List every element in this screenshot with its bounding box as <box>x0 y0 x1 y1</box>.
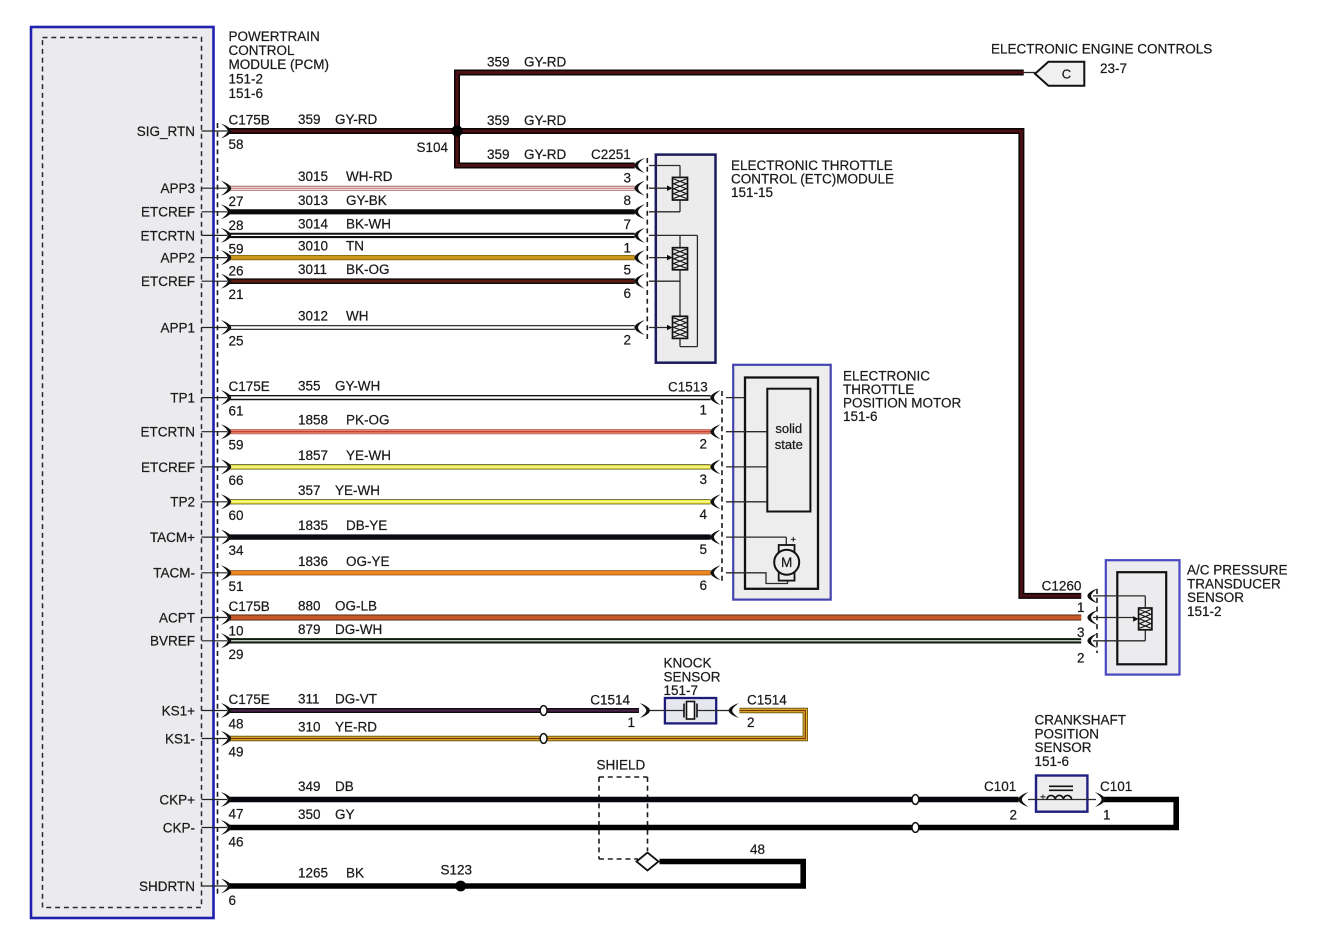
terminal arrow pin 27 <box>221 181 231 196</box>
svg-text:GY-BK: GY-BK <box>346 193 387 208</box>
svg-text:POWERTRAIN: POWERTRAIN <box>229 29 320 44</box>
device terminal arrow pin 1 <box>634 228 644 243</box>
svg-text:357: 357 <box>298 483 321 498</box>
device terminal arrow pin 1 <box>710 390 720 405</box>
svg-text:DB: DB <box>335 779 354 794</box>
terminal arrow pin 61 <box>221 390 231 405</box>
svg-text:ETCRTN: ETCRTN <box>140 425 195 440</box>
svg-text:APP2: APP2 <box>160 251 195 266</box>
svg-text:YE-WH: YE-WH <box>335 483 380 498</box>
svg-text:SENSOR: SENSOR <box>664 669 721 684</box>
motor inner box <box>745 378 818 589</box>
svg-text:1: 1 <box>699 403 707 418</box>
ETC potentiometer 1 (APP3) <box>673 177 688 200</box>
device terminal arrow pin 7 <box>634 204 644 219</box>
svg-text:29: 29 <box>229 647 244 662</box>
wire 3015 WH-RD APP3 <box>229 186 635 191</box>
svg-text:A/C PRESSURE: A/C PRESSURE <box>1187 563 1288 578</box>
svg-text:ACPT: ACPT <box>159 610 195 625</box>
svg-text:5: 5 <box>623 263 631 278</box>
svg-text:58: 58 <box>229 137 244 152</box>
C1513 connector dashed line <box>721 391 723 581</box>
terminal arrow pin 46 <box>221 820 231 835</box>
svg-text:151-7: 151-7 <box>664 683 699 698</box>
device terminal arrow pin 3 <box>1087 610 1097 625</box>
svg-text:BVREF: BVREF <box>150 634 195 649</box>
svg-text:2: 2 <box>699 437 707 452</box>
wire 3010 TN APP2 <box>229 255 635 260</box>
terminal arrow pin 6 <box>221 879 231 894</box>
svg-text:APP1: APP1 <box>160 320 195 335</box>
PCM inner dashed outline <box>43 38 202 908</box>
svg-text:3011: 3011 <box>298 262 327 277</box>
svg-text:359: 359 <box>298 112 321 127</box>
pot1 top lead to pin 3 <box>649 165 680 167</box>
terminal arrow pin 47 <box>221 792 231 807</box>
svg-text:S104: S104 <box>416 140 448 155</box>
svg-text:BK-WH: BK-WH <box>346 216 391 231</box>
svg-text:359: 359 <box>487 113 510 128</box>
pot1 wiper lead pin 8 <box>649 187 668 189</box>
svg-text:34: 34 <box>229 543 245 558</box>
twisted pair marker CKP+ <box>912 795 919 805</box>
svg-text:TN: TN <box>346 239 364 254</box>
pot2 bottom to pot3 top tie with pin 6 <box>679 270 681 317</box>
svg-text:WH: WH <box>346 309 369 324</box>
splice S123 <box>455 881 466 892</box>
terminal arrow pin 59 <box>221 228 231 243</box>
shield dashed box <box>599 776 648 778</box>
C1260 connector dashed line <box>1096 589 1098 653</box>
svg-text:26: 26 <box>229 264 244 279</box>
svg-text:CRANKSHAFT: CRANKSHAFT <box>1035 713 1127 728</box>
svg-text:OG-YE: OG-YE <box>346 554 390 569</box>
crankshaft position sensor box <box>1036 776 1087 812</box>
device terminal arrow pin 3 <box>634 158 644 173</box>
svg-text:M: M <box>781 555 792 570</box>
C101 pin 2 terminal arrow <box>1018 792 1028 807</box>
svg-text:4: 4 <box>699 507 707 522</box>
svg-text:2: 2 <box>1077 650 1085 665</box>
svg-text:ETCREF: ETCREF <box>141 205 195 220</box>
svg-text:ETCREF: ETCREF <box>141 460 195 475</box>
terminal arrow pin 28 <box>221 204 231 219</box>
svg-text:GY-RD: GY-RD <box>524 113 567 128</box>
svg-text:TP1: TP1 <box>170 391 195 406</box>
C101 pin 1 terminal arrow <box>1095 792 1105 807</box>
terminal arrow pin 26 <box>221 250 231 265</box>
svg-text:1835: 1835 <box>298 518 328 533</box>
terminal arrow pin 29 <box>221 633 231 648</box>
PCM pin 25 APP1 lead line <box>202 327 228 329</box>
svg-text:C1514: C1514 <box>747 693 787 708</box>
pot1 bottom lead to pin 7 <box>679 200 681 212</box>
wire 311 DG-VT KS1+ <box>229 708 639 713</box>
PCM pin 10 ACPT lead line <box>202 617 228 619</box>
svg-text:350: 350 <box>298 807 321 822</box>
device terminal arrow pin 2 <box>634 320 644 335</box>
svg-text:C175B: C175B <box>229 599 270 614</box>
svg-text:POSITION: POSITION <box>1035 726 1100 741</box>
PCM pin 48 KS1+ lead line <box>202 710 228 712</box>
pot2 wiper lead pin 5 <box>649 257 668 259</box>
terminal arrow pin 48 <box>221 703 231 718</box>
svg-text:C175E: C175E <box>229 692 270 707</box>
svg-text:355: 355 <box>298 379 321 394</box>
svg-text:KS1+: KS1+ <box>162 703 196 718</box>
ETC module box ELECTRONIC THROTTLE CONTROL <box>656 155 716 363</box>
svg-text:49: 49 <box>229 745 244 760</box>
svg-text:C175B: C175B <box>229 113 270 128</box>
svg-text:PK-OG: PK-OG <box>346 413 390 428</box>
knock sensor box <box>665 698 716 723</box>
shield drain diamond <box>637 853 659 871</box>
svg-text:8: 8 <box>623 193 631 208</box>
PCM pin 60 TP2 lead line <box>202 501 228 503</box>
svg-text:GY-RD: GY-RD <box>335 112 378 127</box>
svg-text:TACM-: TACM- <box>153 566 195 581</box>
svg-text:TRANSDUCER: TRANSDUCER <box>1187 576 1281 591</box>
throttle motor box ELECTRONIC THROTTLE POSITION MOTOR <box>733 365 831 600</box>
svg-text:C175E: C175E <box>229 379 270 394</box>
svg-text:27: 27 <box>229 194 244 209</box>
svg-text:6: 6 <box>699 578 707 593</box>
wire 349 DB CKP+ <box>229 797 1019 803</box>
device terminal arrow pin 8 <box>634 181 644 196</box>
A/C pin2 lead <box>1093 640 1145 642</box>
svg-text:TP2: TP2 <box>170 495 195 510</box>
terminal arrow pin 21 <box>221 274 231 289</box>
svg-text:2: 2 <box>747 715 755 730</box>
motor M symbol <box>779 545 795 553</box>
svg-text:7: 7 <box>623 217 631 232</box>
svg-text:25: 25 <box>229 334 244 349</box>
svg-text:3013: 3013 <box>298 193 328 208</box>
svg-text:1836: 1836 <box>298 554 328 569</box>
svg-text:3: 3 <box>1077 625 1085 640</box>
svg-text:CKP-: CKP- <box>163 820 195 835</box>
svg-text:151-2: 151-2 <box>229 72 264 87</box>
PCM pin 28 ETCREF lead line <box>202 211 228 213</box>
svg-text:3010: 3010 <box>298 239 328 254</box>
svg-text:WH-RD: WH-RD <box>346 169 393 184</box>
PCM pin 6 SHDRTN lead line <box>202 885 228 887</box>
PCM pin 27 APP3 lead line <box>202 187 228 189</box>
PCM pin 59 ETCRTN lead line <box>202 234 228 236</box>
svg-text:3014: 3014 <box>298 216 329 231</box>
PCM connector dashed line <box>217 123 219 894</box>
PCM pin 58 SIG_RTN lead line <box>202 130 228 132</box>
CKP coil symbol <box>1036 799 1087 801</box>
device terminal arrow pin 2 <box>1087 633 1097 648</box>
motor pin3 lead <box>726 466 767 468</box>
svg-text:66: 66 <box>229 473 244 488</box>
CKP sensor lead right <box>1087 799 1096 801</box>
terminal arrow pin 10 <box>221 610 231 625</box>
motor pin6 lead to motor - <box>726 573 788 584</box>
wire 3014 BK-WH ETCRTN <box>229 233 635 238</box>
svg-text:CONTROL: CONTROL <box>229 43 295 58</box>
device terminal arrow pin 4 <box>710 494 720 509</box>
twisted pair marker KS1+ <box>540 706 547 716</box>
PCM pin 47 CKP+ lead line <box>202 799 228 801</box>
device terminal arrow pin 5 <box>634 250 644 265</box>
svg-text:DG-WH: DG-WH <box>335 622 382 637</box>
svg-text:CKP+: CKP+ <box>159 792 195 807</box>
svg-text:C1260: C1260 <box>1042 579 1082 594</box>
device terminal arrow pin 5 <box>710 530 720 545</box>
svg-text:6: 6 <box>623 286 631 301</box>
svg-text:KNOCK: KNOCK <box>664 656 712 671</box>
svg-text:APP3: APP3 <box>160 181 195 196</box>
svg-text:ETCREF: ETCREF <box>141 274 195 289</box>
terminal arrow pin 34 <box>221 530 231 545</box>
svg-text:151-15: 151-15 <box>731 185 773 200</box>
A/C pressure sensor box <box>1106 560 1180 674</box>
A/C pot element <box>1139 608 1152 630</box>
terminal arrow pin 59 <box>221 424 231 439</box>
PCM pin 46 CKP- lead line <box>202 827 228 829</box>
knock sensor lead left <box>650 710 665 712</box>
PCM module box (POWERTRAIN CONTROL MODULE) <box>31 27 214 918</box>
wire 1858 PK-OG ETCRTN <box>229 429 711 434</box>
svg-text:151-2: 151-2 <box>1187 604 1222 619</box>
svg-text:solid: solid <box>775 421 802 436</box>
svg-text:1: 1 <box>623 240 631 255</box>
PCM pin 51 TACM- lead line <box>202 572 228 574</box>
svg-text:ELECTRONIC ENGINE CONTROLS: ELECTRONIC ENGINE CONTROLS <box>991 42 1212 57</box>
svg-text:349: 349 <box>298 779 321 794</box>
wire 357 YE-WH TP2 <box>229 499 711 504</box>
C2251 connector dashed line <box>646 158 648 341</box>
svg-text:SIG_RTN: SIG_RTN <box>137 124 195 139</box>
svg-text:GY-WH: GY-WH <box>335 379 380 394</box>
svg-text:61: 61 <box>229 404 244 419</box>
svg-text:C101: C101 <box>984 779 1016 794</box>
svg-text:3: 3 <box>699 472 707 487</box>
solid state box <box>767 389 810 512</box>
svg-text:359: 359 <box>487 55 510 70</box>
pot3 bottom lead <box>679 338 681 346</box>
A/C pin1 lead <box>1093 595 1145 597</box>
svg-text:C2251: C2251 <box>591 147 631 162</box>
svg-text:28: 28 <box>229 218 244 233</box>
terminal arrow pin 51 <box>221 565 231 580</box>
svg-text:ETCRTN: ETCRTN <box>140 228 195 243</box>
svg-text:SHIELD: SHIELD <box>597 758 646 773</box>
svg-text:3: 3 <box>623 171 631 186</box>
svg-text:SENSOR: SENSOR <box>1035 740 1092 755</box>
wire 1857 YE-WH ETCREF <box>229 464 711 469</box>
svg-text:151-6: 151-6 <box>843 409 878 424</box>
PCM pin 66 ETCREF lead line <box>202 466 228 468</box>
ETC potentiometer 3 (APP1) <box>673 316 688 338</box>
svg-text:1857: 1857 <box>298 448 328 463</box>
motor pin2 lead <box>726 431 767 433</box>
svg-text:2: 2 <box>1009 808 1017 823</box>
svg-text:151-6: 151-6 <box>1035 754 1070 769</box>
svg-text:48: 48 <box>750 842 765 857</box>
device terminal arrow pin 6 <box>634 274 644 289</box>
splice S104 <box>451 125 462 136</box>
svg-text:OG-LB: OG-LB <box>335 599 377 614</box>
svg-text:23-7: 23-7 <box>1100 61 1127 76</box>
svg-text:46: 46 <box>229 835 244 850</box>
svg-text:310: 310 <box>298 720 321 735</box>
svg-text:311: 311 <box>298 692 320 707</box>
PCM pin 26 APP2 lead line <box>202 257 228 259</box>
twisted pair marker CKP- <box>912 823 919 833</box>
PCM pin 59 ETCRTN lead line <box>202 431 228 433</box>
svg-text:3015: 3015 <box>298 169 328 184</box>
terminal arrow pin 66 <box>221 459 231 474</box>
svg-text:1: 1 <box>1077 600 1085 615</box>
svg-text:C1514: C1514 <box>590 693 630 708</box>
svg-text:C1513: C1513 <box>668 380 708 395</box>
svg-text:1: 1 <box>627 715 635 730</box>
PCM pin 29 BVREF lead line <box>202 640 228 642</box>
pot3 wiper lead pin 2 <box>649 327 668 329</box>
motor pin1 lead <box>726 397 745 399</box>
device terminal arrow pin 6 <box>710 565 720 580</box>
svg-text:C101: C101 <box>1100 779 1132 794</box>
svg-text:S123: S123 <box>441 863 473 878</box>
svg-text:59: 59 <box>229 438 244 453</box>
svg-text:1: 1 <box>1103 808 1111 823</box>
svg-text:2: 2 <box>623 333 631 348</box>
svg-text:SHDRTN: SHDRTN <box>139 879 195 894</box>
PCM pin 61 TP1 lead line <box>202 397 228 399</box>
svg-text:YE-WH: YE-WH <box>346 448 391 463</box>
svg-text:DB-YE: DB-YE <box>346 518 387 533</box>
svg-text:47: 47 <box>229 807 244 822</box>
wire 359 GY-RD SIG_RTN to S104 to A/C sensor <box>229 131 1081 596</box>
twisted pair marker KS1- <box>540 734 547 744</box>
motor pin4 lead <box>726 501 767 503</box>
electronic engine controls lead line <box>1024 72 1036 74</box>
terminal arrow pin 58 <box>221 124 231 139</box>
svg-text:GY-RD: GY-RD <box>524 55 567 70</box>
svg-text:1265: 1265 <box>298 866 328 881</box>
device terminal arrow pin 1 <box>1087 588 1097 603</box>
svg-text:GY-RD: GY-RD <box>524 147 567 162</box>
svg-text:MODULE (PCM): MODULE (PCM) <box>229 57 330 72</box>
svg-text:1858: 1858 <box>298 413 328 428</box>
wire 350 GY CKP- loop through C101 <box>229 800 1176 828</box>
svg-text:TACM+: TACM+ <box>150 530 195 545</box>
terminal arrow pin 60 <box>221 494 231 509</box>
C1514 pin 1 terminal arrow <box>640 703 650 718</box>
svg-text:10: 10 <box>229 624 244 639</box>
svg-text:+: + <box>1040 793 1046 804</box>
svg-text:BK: BK <box>346 866 364 881</box>
svg-text:YE-RD: YE-RD <box>335 720 377 735</box>
svg-text:KS1-: KS1- <box>165 731 195 746</box>
motor pin5 lead to motor + <box>726 536 786 538</box>
ETC potentiometer 2 (APP2) <box>673 248 688 270</box>
svg-text:21: 21 <box>229 287 244 302</box>
svg-text:51: 51 <box>229 579 244 594</box>
wire 1265 BK SHDRTN with shield drain branch 48 <box>229 862 803 887</box>
knock sensor lead right <box>716 710 731 712</box>
svg-text:6: 6 <box>229 893 237 908</box>
wire 880 OG-LB ACPT <box>229 615 1081 621</box>
knock piezo symbol <box>665 710 684 712</box>
PCM pin 49 KS1- lead line <box>202 738 228 740</box>
A/C sensor inner box <box>1117 572 1166 664</box>
wire 355 GY-WH TP1 <box>229 395 711 400</box>
svg-text:DG-VT: DG-VT <box>335 692 377 707</box>
wire 359 GY-RD branch S104 up to engine controls and down to C2251 pin 3 <box>457 73 1024 166</box>
wire 3011 BK-OG ETCREF <box>229 278 635 284</box>
svg-text:359: 359 <box>487 147 510 162</box>
wire 3013 GY-BK ETCREF <box>229 209 635 214</box>
PCM pin 34 TACM+ lead line <box>202 536 228 538</box>
wire 1836 OG-YE TACM- <box>229 570 711 575</box>
terminal arrow pin 25 <box>221 320 231 335</box>
svg-text:880: 880 <box>298 599 321 614</box>
wire 1835 DB-YE TACM+ <box>229 534 711 539</box>
wire 3012 WH APP1 <box>229 325 635 330</box>
pot2 top lead pin 1 and right rail <box>649 234 698 236</box>
terminal arrow pin 49 <box>221 731 231 746</box>
svg-text:C: C <box>1062 67 1071 82</box>
PCM pin 21 ETCREF lead line <box>202 280 228 282</box>
svg-text:151-6: 151-6 <box>229 86 264 101</box>
svg-text:+: + <box>791 535 797 546</box>
right rail joining pin1 to pot3 bottom <box>696 235 698 346</box>
connector tag C to electronic engine controls <box>1035 62 1084 86</box>
svg-text:879: 879 <box>298 622 321 637</box>
svg-text:BK-OG: BK-OG <box>346 262 390 277</box>
svg-text:60: 60 <box>229 508 244 523</box>
wire 310 YE-RD KS1- loop <box>229 711 805 739</box>
device terminal arrow pin 3 <box>710 459 720 474</box>
A/C pin3 wiper lead <box>1093 617 1134 619</box>
svg-text:GY: GY <box>335 807 355 822</box>
svg-text:59: 59 <box>229 241 244 256</box>
svg-text:48: 48 <box>229 717 244 732</box>
CKP sensor lead left <box>1028 799 1036 801</box>
svg-text:state: state <box>775 437 803 452</box>
device terminal arrow pin 2 <box>710 424 720 439</box>
wire 879 DG-WH BVREF <box>229 638 1081 643</box>
svg-text:5: 5 <box>699 542 707 557</box>
svg-text:3012: 3012 <box>298 309 328 324</box>
svg-text:SENSOR: SENSOR <box>1187 590 1244 605</box>
C1514 pin 2 terminal arrow <box>729 703 739 718</box>
